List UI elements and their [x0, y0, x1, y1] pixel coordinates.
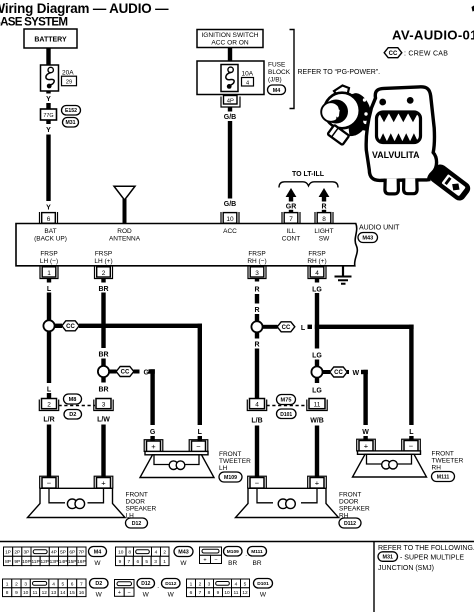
- svg-text:L: L: [47, 286, 52, 293]
- wire to door speaker LH +: [101, 425, 105, 478]
- svg-text:(BACK UP): (BACK UP): [34, 235, 67, 242]
- legend connector door speaker: [115, 580, 135, 588]
- svg-text:8: 8: [128, 550, 131, 556]
- svg-text:11: 11: [314, 402, 321, 409]
- speaker terminal +: [357, 439, 376, 451]
- svg-text:D2: D2: [95, 581, 102, 587]
- legend connector grid D101: [187, 579, 196, 588]
- wire to door speaker RH -: [255, 426, 259, 478]
- svg-text:AUDIO UNIT: AUDIO UNIT: [359, 225, 400, 232]
- svg-text:3: 3: [255, 270, 259, 277]
- svg-text:8: 8: [322, 216, 326, 223]
- turbocharger inlet: [321, 102, 341, 122]
- svg-text:15P: 15P: [68, 559, 77, 565]
- svg-text:L: L: [409, 429, 414, 436]
- SMJ connector 77G: [41, 109, 57, 120]
- dashed link: [59, 405, 96, 407]
- svg-text:LIGHT: LIGHT: [314, 228, 333, 235]
- svg-text:TWEETER: TWEETER: [219, 458, 251, 465]
- connector 11 (M75/D101): [307, 400, 327, 411]
- svg-text:M43: M43: [362, 236, 373, 242]
- svg-text:2: 2: [15, 581, 18, 587]
- svg-text:11: 11: [32, 590, 37, 596]
- wire battery to fuse: [46, 48, 50, 65]
- legend connector grid D2: [3, 579, 12, 588]
- wire stub: [47, 393, 51, 399]
- mascot mouth: [377, 112, 421, 143]
- wire stub: [322, 210, 326, 213]
- legend connector grid M43: [116, 547, 127, 556]
- wire pin1 stub: [47, 279, 51, 283]
- svg-text:1: 1: [190, 581, 193, 587]
- pin 4: [308, 267, 326, 279]
- svg-text:GR: GR: [286, 204, 297, 211]
- svg-text:FRSP: FRSP: [308, 251, 325, 258]
- wire dash: [255, 294, 259, 304]
- svg-text:G/B: G/B: [224, 201, 236, 208]
- svg-text:4P: 4P: [51, 550, 57, 556]
- connector ref D2: [64, 410, 82, 420]
- svg-text:3: 3: [208, 581, 211, 587]
- svg-text:BR: BR: [98, 352, 108, 359]
- wire below junction: [47, 332, 51, 384]
- svg-text:FRONT: FRONT: [219, 451, 241, 458]
- wire to fuse block: [228, 48, 232, 62]
- svg-text:AV-AUDIO-01: AV-AUDIO-01: [392, 27, 474, 42]
- svg-text:IGNITION SWITCH: IGNITION SWITCH: [201, 32, 258, 39]
- mascot eye left: [379, 99, 386, 106]
- connector 4 (M75/D101): [247, 400, 266, 411]
- wire corner down: [409, 325, 413, 425]
- svg-text:FRSP: FRSP: [95, 251, 112, 258]
- wire solid down: [255, 349, 259, 399]
- wire down to pin 6: [46, 135, 50, 202]
- wire dash below junction: [255, 333, 259, 339]
- svg-text:5: 5: [61, 581, 64, 587]
- wire branch L horizontal to tweeter LH: [54, 324, 62, 328]
- speaker terminal -: [189, 440, 208, 452]
- svg-text:14P: 14P: [59, 559, 68, 565]
- connector ref M75: [277, 395, 296, 405]
- svg-text:16P: 16P: [77, 559, 86, 565]
- svg-text:16: 16: [79, 590, 85, 596]
- svg-text:FRONT: FRONT: [339, 492, 361, 499]
- svg-text:29: 29: [66, 80, 72, 86]
- svg-text:7: 7: [289, 216, 293, 223]
- mascot hand blob: [348, 94, 369, 136]
- crew cab splice CC: [323, 370, 331, 374]
- wire: [228, 107, 232, 112]
- svg-text:+: +: [118, 590, 121, 596]
- svg-text:7: 7: [80, 581, 83, 587]
- wire LG down: [315, 293, 319, 349]
- svg-text:R: R: [321, 204, 326, 211]
- svg-text:13P: 13P: [50, 559, 59, 565]
- svg-text:5: 5: [244, 581, 247, 587]
- svg-text:LG: LG: [312, 287, 322, 294]
- svg-text:CC: CC: [121, 370, 130, 376]
- svg-text:4: 4: [52, 581, 55, 587]
- svg-text:ACC: ACC: [223, 228, 237, 235]
- svg-text:3: 3: [102, 402, 106, 409]
- svg-text:4P: 4P: [227, 99, 234, 105]
- speaker terminal -: [402, 439, 421, 451]
- legend connector tweeter: [200, 547, 222, 555]
- speaker terminal +: [94, 476, 113, 488]
- tweeter body: [358, 451, 421, 454]
- svg-text:3P: 3P: [23, 550, 29, 556]
- svg-text:3: 3: [24, 581, 27, 587]
- svg-text:ACC OR ON: ACC OR ON: [211, 40, 249, 47]
- connector ref M31: [63, 118, 79, 128]
- svg-text:D112: D112: [344, 521, 356, 527]
- svg-text:10: 10: [224, 590, 230, 596]
- connector 2 (M8/D2): [39, 400, 58, 411]
- battery B1: [24, 29, 77, 48]
- svg-text:2: 2: [47, 402, 51, 409]
- svg-text:W: W: [180, 560, 187, 567]
- svg-text:CC: CC: [334, 370, 343, 376]
- wire G corner to tweeter LH +: [149, 369, 155, 373]
- svg-text:−: −: [196, 442, 201, 451]
- svg-text:M4: M4: [273, 88, 281, 94]
- svg-text:D101: D101: [280, 412, 292, 418]
- svg-text:ANTENNA: ANTENNA: [109, 235, 141, 242]
- svg-text:LG: LG: [312, 388, 322, 395]
- svg-text:M109: M109: [227, 549, 239, 555]
- op-amp audio unit box: [16, 224, 357, 266]
- wire below junction: [101, 377, 105, 383]
- connector ref E152: [62, 106, 81, 116]
- arrow to LT-ILL (R): [319, 188, 330, 197]
- wire pin2 stub: [101, 279, 105, 283]
- svg-text:W: W: [353, 370, 360, 377]
- svg-text:12: 12: [242, 590, 248, 596]
- svg-text:9: 9: [217, 590, 220, 596]
- mascot teeth: [379, 113, 418, 141]
- legend separator line: [0, 541, 474, 543]
- pin 2: [95, 267, 113, 279]
- svg-text:M111: M111: [251, 549, 263, 555]
- svg-text:BR: BR: [228, 560, 237, 567]
- svg-text:3: 3: [154, 559, 157, 565]
- connector ref D101: [277, 409, 297, 419]
- svg-text:M75: M75: [281, 398, 292, 404]
- svg-text:M8: M8: [69, 397, 77, 403]
- connector ref M31 note: [378, 552, 398, 562]
- svg-text:7: 7: [128, 559, 131, 565]
- svg-text:7: 7: [199, 590, 202, 596]
- svg-text:- SUPER MULTIPLE: - SUPER MULTIPLE: [400, 554, 464, 561]
- svg-text:4: 4: [255, 402, 259, 409]
- svg-text:D2: D2: [69, 412, 76, 418]
- svg-text:.: .: [245, 551, 247, 558]
- turbocharger impeller blades: [336, 105, 343, 121]
- svg-text:15: 15: [69, 590, 75, 596]
- mascot eye right: [407, 97, 414, 104]
- fuse F2 10A: [221, 65, 238, 92]
- wire: [46, 120, 50, 124]
- speaker terminal +: [144, 440, 163, 452]
- svg-text:4: 4: [246, 80, 249, 86]
- tweeter body: [145, 451, 208, 454]
- speaker terminal -: [40, 476, 59, 488]
- svg-text:RH: RH: [432, 465, 442, 472]
- svg-text:−: −: [214, 557, 217, 563]
- svg-text:12P: 12P: [40, 559, 49, 565]
- wire below junction: [315, 378, 319, 384]
- arrow to LT-ILL (GR): [286, 188, 297, 197]
- speaker terminal -: [248, 476, 267, 488]
- svg-text:RH (−): RH (−): [247, 258, 266, 265]
- svg-text:RH (+): RH (+): [307, 258, 326, 265]
- crew cab splice CC: [62, 321, 79, 331]
- svg-text:SW: SW: [319, 235, 330, 242]
- svg-text:LH: LH: [219, 465, 228, 472]
- svg-text:W: W: [96, 592, 103, 599]
- dashed link: [267, 405, 308, 407]
- svg-text:G/B: G/B: [224, 114, 236, 121]
- svg-text:BR: BR: [252, 560, 261, 567]
- svg-text:R: R: [254, 287, 259, 294]
- svg-text:L/W: L/W: [97, 417, 110, 424]
- node junction L: [43, 320, 54, 331]
- bracket refer to PG-POWER: [290, 30, 295, 109]
- svg-text:ROD: ROD: [117, 228, 132, 235]
- door speaker body: [28, 488, 126, 517]
- svg-text:−: −: [127, 590, 130, 596]
- svg-text:LH (−): LH (−): [40, 258, 58, 265]
- svg-text:SPEAKER: SPEAKER: [126, 506, 157, 513]
- svg-text:M111: M111: [437, 475, 450, 481]
- svg-text:VALVULITA: VALVULITA: [372, 150, 420, 160]
- scan speck top-right: [472, 6, 474, 12]
- svg-text:5: 5: [145, 559, 148, 565]
- svg-text:W: W: [94, 560, 101, 567]
- connector ref M4: [268, 85, 286, 95]
- svg-text:M43: M43: [178, 550, 189, 556]
- wire corner down: [198, 324, 202, 425]
- svg-text:−: −: [47, 479, 52, 488]
- svg-text:+: +: [151, 442, 156, 451]
- svg-text:4: 4: [235, 581, 238, 587]
- svg-text:5P: 5P: [60, 550, 66, 556]
- legend divider: [373, 542, 375, 612]
- svg-text:2: 2: [102, 270, 106, 277]
- svg-text:M109: M109: [224, 475, 237, 481]
- svg-text:L/R: L/R: [43, 417, 54, 424]
- svg-text:D12: D12: [141, 581, 150, 587]
- turbocharger turbine housing: [346, 90, 375, 124]
- svg-text:10A: 10A: [242, 70, 254, 77]
- svg-text:Y: Y: [46, 127, 51, 134]
- svg-text:W: W: [260, 592, 267, 599]
- svg-text:6: 6: [47, 216, 51, 223]
- svg-text:CONT: CONT: [282, 235, 300, 242]
- svg-text:CC: CC: [282, 325, 291, 331]
- svg-text:Y: Y: [46, 205, 51, 212]
- legend connector grid M4: [4, 547, 13, 556]
- antenna symbol: [114, 186, 135, 200]
- turbocharger volute: [324, 93, 360, 129]
- svg-text:R: R: [254, 342, 259, 349]
- svg-text:G: G: [150, 429, 156, 436]
- wire BR down: [101, 293, 105, 349]
- speaker terminal +: [308, 476, 327, 488]
- svg-text:M31: M31: [65, 120, 75, 126]
- svg-text:8: 8: [208, 590, 211, 596]
- brace: [279, 182, 338, 188]
- svg-text:L: L: [47, 387, 52, 394]
- svg-text:+: +: [315, 479, 320, 488]
- ground: [342, 266, 344, 276]
- wire stub: [289, 210, 293, 213]
- svg-text:BR: BR: [98, 387, 108, 394]
- pin 7: [282, 212, 300, 224]
- svg-text:9: 9: [119, 559, 122, 565]
- svg-text:2: 2: [199, 581, 202, 587]
- svg-text:BLOCK: BLOCK: [268, 69, 291, 76]
- svg-text:Wiring Diagram — AUDIO —: Wiring Diagram — AUDIO —: [0, 1, 169, 16]
- wire fuse to label: [46, 91, 50, 94]
- svg-text:BAT: BAT: [44, 228, 56, 235]
- svg-text:FRONT: FRONT: [126, 492, 148, 499]
- svg-text:DOOR: DOOR: [126, 499, 146, 506]
- svg-text:1P: 1P: [5, 550, 11, 556]
- wire pin4 stub: [315, 279, 319, 283]
- node junction BR: [98, 366, 109, 377]
- connector 4P: [221, 97, 240, 108]
- pin 6: [40, 212, 58, 224]
- wire stub: [315, 360, 319, 367]
- wire dash: [255, 314, 259, 321]
- turbocharger top nub: [334, 86, 349, 96]
- svg-text:7P: 7P: [78, 550, 84, 556]
- svg-text:M31: M31: [383, 555, 394, 561]
- crew cab splice CC: [263, 325, 278, 329]
- pin 10: [221, 212, 239, 224]
- wire dash: [308, 325, 313, 329]
- svg-text:BR: BR: [98, 286, 108, 293]
- node junction LG: [311, 366, 322, 377]
- svg-text:9P: 9P: [14, 559, 20, 565]
- mascot arm: [357, 105, 374, 132]
- svg-text:2P: 2P: [14, 550, 20, 556]
- fuse block box: [197, 61, 264, 95]
- svg-text:11P: 11P: [31, 559, 39, 565]
- mascot tag: [427, 162, 473, 203]
- svg-text:ILL: ILL: [286, 228, 295, 235]
- svg-text:R: R: [254, 307, 259, 314]
- connector ref M8: [64, 394, 82, 404]
- wire: [46, 103, 50, 109]
- wire pin3 stub: [255, 279, 259, 282]
- svg-text:2: 2: [163, 550, 166, 556]
- svg-text:FUSE: FUSE: [268, 62, 286, 69]
- connector ref M43: [358, 233, 378, 243]
- svg-text:8P: 8P: [5, 559, 11, 565]
- mascot sticker group: [321, 86, 473, 204]
- pin 1: [40, 267, 58, 279]
- svg-text:SPEAKER: SPEAKER: [339, 506, 370, 513]
- svg-text:L/B: L/B: [251, 418, 262, 425]
- ignition switch SW1: [197, 30, 263, 48]
- connector 3 (M8/D2): [94, 400, 113, 411]
- svg-text:: CREW CAB: : CREW CAB: [404, 51, 448, 58]
- svg-text:REFER TO THE FOLLOWING.: REFER TO THE FOLLOWING.: [378, 545, 474, 552]
- svg-text:−: −: [255, 479, 260, 488]
- svg-text:1: 1: [47, 270, 51, 277]
- svg-text:M4: M4: [94, 550, 102, 556]
- legend: CC crew cab: [384, 48, 402, 58]
- svg-text:BASE SYSTEM: BASE SYSTEM: [0, 16, 68, 29]
- svg-text:JUNCTION (SMJ): JUNCTION (SMJ): [378, 565, 434, 572]
- svg-text:13: 13: [51, 590, 57, 596]
- svg-text:L: L: [198, 429, 203, 436]
- svg-text:6: 6: [136, 559, 139, 565]
- svg-text:W: W: [168, 592, 175, 599]
- svg-text:8: 8: [6, 590, 9, 596]
- svg-text:6P: 6P: [69, 550, 75, 556]
- svg-text:D101: D101: [257, 581, 269, 587]
- svg-text:4: 4: [315, 270, 319, 277]
- svg-text:LH (+): LH (+): [94, 258, 112, 265]
- svg-text:6: 6: [190, 590, 193, 596]
- svg-text:CC: CC: [389, 51, 398, 57]
- svg-text:CC: CC: [66, 324, 75, 330]
- svg-text:10: 10: [226, 216, 234, 223]
- wire stub: [101, 359, 105, 367]
- svg-text:+: +: [203, 557, 206, 563]
- wire branch L horizontal to tweeter RH: [315, 325, 414, 329]
- svg-text:D12: D12: [132, 521, 142, 527]
- svg-text:12: 12: [42, 590, 48, 596]
- wire to door speaker LH -: [47, 425, 51, 478]
- svg-text:TO LT-ILL: TO LT-ILL: [292, 171, 325, 178]
- svg-text:+: +: [364, 442, 369, 451]
- svg-text:4: 4: [155, 550, 158, 556]
- svg-text:FRSP: FRSP: [40, 251, 57, 258]
- fuse F1 20A: [41, 65, 59, 91]
- svg-text:10P: 10P: [22, 559, 31, 565]
- svg-text:11: 11: [234, 590, 239, 596]
- svg-text:W: W: [362, 429, 369, 436]
- svg-text:TWEETER: TWEETER: [432, 458, 464, 465]
- svg-text:9: 9: [15, 590, 18, 596]
- wire to door speaker RH +: [315, 426, 319, 478]
- node junction R: [251, 321, 262, 332]
- pin 8: [315, 212, 333, 224]
- svg-text:LG: LG: [312, 353, 322, 360]
- pin 3: [248, 267, 266, 279]
- svg-text:DOOR: DOOR: [339, 499, 359, 506]
- svg-text:6: 6: [71, 581, 74, 587]
- wire W corner to tweeter RH +: [361, 370, 368, 374]
- svg-text:−: −: [409, 442, 414, 451]
- svg-text:E152: E152: [65, 108, 77, 114]
- mascot leg right: [404, 178, 418, 193]
- turbocharger outlet pipe: [327, 125, 349, 145]
- svg-text:14: 14: [60, 590, 66, 596]
- svg-text:+: +: [101, 479, 106, 488]
- mascot body: [366, 87, 436, 181]
- svg-text:10: 10: [23, 590, 29, 596]
- crew cab splice CC: [109, 370, 117, 374]
- svg-text:W: W: [143, 592, 150, 599]
- door speaker body: [236, 488, 339, 517]
- svg-text:L: L: [301, 325, 306, 332]
- svg-text:(J/B): (J/B): [268, 77, 282, 84]
